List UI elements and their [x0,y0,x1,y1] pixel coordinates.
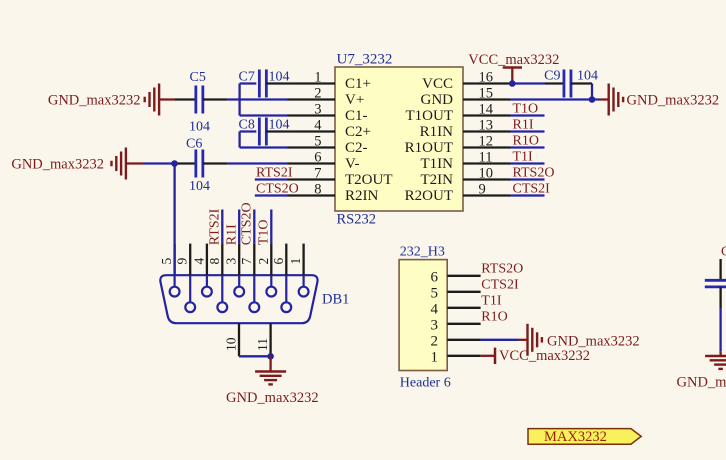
svg-text:12: 12 [479,134,494,150]
svg-text:104: 104 [189,179,210,194]
svg-text:T1O: T1O [513,101,539,116]
svg-text:C9: C9 [544,69,560,84]
svg-text:C2-: C2- [345,140,368,156]
svg-text:2: 2 [256,258,271,265]
svg-text:T2OUT: T2OUT [345,172,393,188]
svg-text:C: C [721,245,726,260]
svg-text:VCC_max3232: VCC_max3232 [468,52,559,68]
svg-text:2: 2 [314,86,321,102]
svg-text:CTS2I: CTS2I [513,181,551,196]
svg-text:6: 6 [314,150,321,166]
svg-text:GND_max3232: GND_max3232 [226,390,319,406]
svg-text:C5: C5 [190,70,206,85]
svg-text:R1I: R1I [224,224,239,245]
svg-text:GND_ma: GND_ma [677,375,726,391]
svg-text:232_H3: 232_H3 [400,245,445,260]
svg-text:T1O: T1O [257,220,272,246]
svg-text:11: 11 [479,150,493,166]
svg-text:9: 9 [479,182,486,198]
svg-text:RTS2O: RTS2O [481,262,523,277]
svg-text:104: 104 [269,70,290,85]
svg-text:RTS2I: RTS2I [256,166,293,181]
svg-text:8: 8 [314,182,321,198]
svg-text:GND_max3232: GND_max3232 [11,157,104,173]
svg-text:VCC: VCC [422,76,453,92]
svg-text:RS232: RS232 [337,212,377,228]
svg-text:1: 1 [431,349,439,365]
svg-text:GND_max3232: GND_max3232 [627,93,720,109]
svg-text:T1IN: T1IN [421,156,454,172]
svg-text:3: 3 [431,317,439,333]
svg-text:MAX3232: MAX3232 [544,429,607,445]
svg-text:8: 8 [207,258,222,265]
svg-text:1: 1 [288,258,303,265]
svg-text:13: 13 [479,118,494,134]
svg-text:T1I: T1I [481,294,502,309]
svg-text:T1OUT: T1OUT [406,108,454,124]
svg-text:RTS2O: RTS2O [513,165,555,180]
svg-text:R1IN: R1IN [420,124,454,140]
svg-text:R2IN: R2IN [345,188,379,204]
svg-text:9: 9 [175,258,190,265]
svg-text:7: 7 [239,258,254,265]
svg-text:Header 6: Header 6 [400,376,451,391]
svg-text:GND: GND [421,92,454,108]
svg-text:R2OUT: R2OUT [405,188,453,204]
svg-text:5: 5 [431,285,439,301]
svg-text:5: 5 [159,258,174,265]
svg-text:C2+: C2+ [345,124,371,140]
svg-text:C1+: C1+ [345,76,371,92]
svg-text:T1I: T1I [513,149,534,164]
svg-text:V+: V+ [345,92,364,108]
svg-text:104: 104 [269,118,290,133]
svg-text:7: 7 [314,166,321,182]
svg-text:R1O: R1O [481,310,507,325]
svg-text:15: 15 [479,86,494,102]
svg-text:4: 4 [191,258,206,265]
svg-text:DB1: DB1 [322,292,349,308]
svg-text:R1O: R1O [513,133,539,148]
svg-text:104: 104 [577,69,598,84]
svg-text:CTS2O: CTS2O [240,202,255,245]
svg-text:CTS2I: CTS2I [481,278,519,293]
svg-text:R1I: R1I [513,117,534,132]
svg-text:1: 1 [314,70,321,86]
svg-text:C8: C8 [239,118,255,133]
svg-text:3: 3 [314,102,321,118]
svg-text:10: 10 [224,337,239,351]
svg-text:CTS2O: CTS2O [256,182,299,197]
svg-text:4: 4 [314,118,322,134]
svg-text:V-: V- [345,156,359,172]
svg-text:2: 2 [431,333,439,349]
svg-text:VCC_max3232: VCC_max3232 [499,348,590,364]
svg-text:C1-: C1- [345,108,368,124]
svg-text:R1OUT: R1OUT [405,140,453,156]
svg-text:5: 5 [314,134,321,150]
svg-text:C7: C7 [239,70,255,85]
svg-text:11: 11 [255,338,270,351]
svg-text:3: 3 [224,258,239,265]
svg-text:T2IN: T2IN [421,172,454,188]
svg-text:16: 16 [479,70,494,86]
svg-text:U7_3232: U7_3232 [337,52,393,68]
svg-text:4: 4 [431,301,439,317]
svg-text:10: 10 [479,166,494,182]
svg-text:6: 6 [431,269,439,285]
svg-text:6: 6 [271,258,286,265]
svg-text:14: 14 [479,102,494,118]
svg-text:C6: C6 [186,137,202,152]
svg-text:RTS2I: RTS2I [208,208,223,245]
svg-text:104: 104 [189,120,210,135]
svg-text:GND_max3232: GND_max3232 [48,93,141,109]
